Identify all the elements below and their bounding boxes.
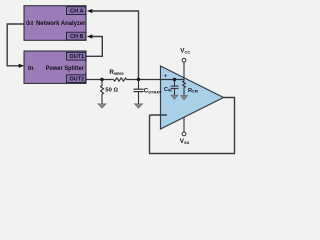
svg-text:CH B: CH B [70,34,84,40]
network analyzer block [24,6,86,41]
svg-text:Power Splitter: Power Splitter [46,65,85,72]
port OUT1 [67,52,86,60]
wire Out to In (network analyzer Out -> power splitter In) [7,24,24,66]
Vss terminal [183,117,185,132]
resistor 50 ohm [101,80,104,104]
svg-text:CSTRAY: CSTRAY [144,87,162,94]
ground (RCM) [181,96,188,100]
svg-text:+: + [164,74,167,80]
svg-text:CIN: CIN [164,87,172,93]
resistor RCM (inside op-amp) [183,80,186,96]
wire OUT1 to CH B [86,37,102,57]
port CH B [67,32,86,40]
wire CH A measurement tap (node after RSERIES up to CH A) [93,11,139,80]
ground (CSTRAY) [134,104,142,108]
svg-text:In: In [28,65,34,72]
svg-text:OUT2: OUT2 [70,77,85,83]
svg-text:Network Analyzer: Network Analyzer [36,20,86,27]
op-amp U1 [161,66,224,129]
ground (CIN) [171,95,178,99]
port OUT2 [67,75,86,83]
power splitter block [24,51,86,83]
wire main signal OUT2 to op-amp noninverting input [86,79,114,81]
svg-text:OUT1: OUT1 [70,54,85,60]
node junction at CSTRAY / CH A tap [137,78,140,81]
svg-text:50 Ω: 50 Ω [105,88,118,94]
ground (50 ohm) [98,104,106,108]
node junction at 50 ohm tap [100,78,103,81]
node junction at CIN tap [173,78,176,81]
svg-text:RCM: RCM [188,88,198,94]
port CH A [67,7,86,15]
svg-text:Out: Out [26,20,33,27]
capacitor CSTRAY [138,80,140,90]
feedback wire output to inverting input [150,98,235,154]
svg-text:CH A: CH A [70,9,84,15]
capacitor CIN (inside op-amp) [174,80,176,86]
minus input marker / inverting input stub [150,114,168,116]
Vcc terminal [183,62,185,79]
resistor RSERIES [114,78,127,81]
